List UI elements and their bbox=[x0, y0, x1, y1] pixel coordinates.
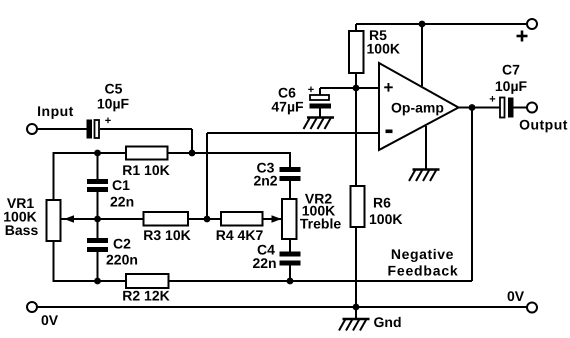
Vplus mark bbox=[517, 31, 528, 42]
node output junction bbox=[469, 104, 476, 111]
capacitor C5 bbox=[87, 120, 100, 139]
0V terminal left bbox=[27, 302, 37, 312]
resistor R3 bbox=[144, 212, 189, 226]
svg-text:R3 10K: R3 10K bbox=[143, 227, 190, 243]
capacitor C1 bbox=[87, 179, 108, 192]
svg-text:Bass: Bass bbox=[5, 222, 39, 238]
wire R5 bottom stub bbox=[355, 73, 357, 88]
resistor R5 bbox=[349, 31, 364, 73]
svg-text:Output: Output bbox=[519, 117, 568, 133]
wire bottom feedback line bbox=[53, 280, 473, 282]
node C4 bottom junction bbox=[287, 278, 294, 285]
capacitor C7 bbox=[500, 98, 514, 118]
capacitor C2 bbox=[87, 238, 108, 252]
node C2 bottom junction bbox=[94, 278, 101, 285]
resistor R1 bbox=[126, 147, 168, 160]
wire opamp ground stub bbox=[425, 126, 427, 170]
wire C5 to corner bbox=[100, 128, 192, 130]
wire top rail bbox=[356, 23, 526, 25]
op-amp minus input mark bbox=[386, 130, 393, 134]
ground symbol main bbox=[339, 319, 370, 331]
svg-text:Negative: Negative bbox=[391, 246, 454, 262]
wire C7 to output terminal bbox=[514, 107, 528, 109]
svg-text:100K: 100K bbox=[369, 211, 402, 227]
VR1 wiper arrow bbox=[64, 215, 74, 223]
wire wiper line bbox=[61, 218, 283, 220]
svg-text:+: + bbox=[384, 78, 394, 97]
svg-text:22n: 22n bbox=[252, 255, 276, 271]
potentiometer VR2 bbox=[282, 199, 297, 239]
ground below op-amp bbox=[409, 170, 440, 182]
svg-text:Input: Input bbox=[37, 103, 74, 119]
svg-text:R6: R6 bbox=[373, 195, 391, 211]
resistor R6 bbox=[351, 186, 365, 227]
svg-text:R2 12K: R2 12K bbox=[122, 288, 169, 304]
wire inverting drop to R3R4 bbox=[206, 133, 208, 219]
svg-text:C5: C5 bbox=[105, 81, 123, 97]
capacitor C6 bbox=[310, 95, 332, 109]
svg-text:0V: 0V bbox=[41, 312, 59, 328]
node supply junction bbox=[419, 21, 426, 28]
wire C1 column bbox=[97, 153, 99, 179]
wire inverting input line bbox=[207, 132, 379, 134]
wire R5 top stub bbox=[355, 24, 357, 31]
capacitor C3 bbox=[280, 167, 301, 181]
wire noninverting line bbox=[320, 87, 379, 89]
svg-text:10µF: 10µF bbox=[495, 78, 528, 94]
input terminal bbox=[27, 124, 37, 134]
svg-text:C1: C1 bbox=[112, 177, 130, 193]
wire C2 to bottom line bbox=[97, 252, 99, 281]
wire C3 to VR2 bbox=[289, 181, 291, 199]
capacitor C4 bbox=[280, 252, 301, 266]
node wiper C1C2 junction bbox=[94, 216, 101, 223]
op-amp U1 bbox=[379, 63, 459, 150]
node R3 R4 junction bbox=[204, 216, 211, 223]
wire R6 to ground rail bbox=[355, 227, 357, 307]
wire C4 to bottom line bbox=[289, 266, 291, 282]
wire opamp supply stub bbox=[421, 24, 423, 86]
svg-text:220n: 220n bbox=[106, 252, 138, 268]
svg-text:Treble: Treble bbox=[300, 216, 341, 232]
svg-text:10µF: 10µF bbox=[97, 96, 130, 112]
svg-text:Op-amp: Op-amp bbox=[391, 100, 444, 116]
wire bias divider column bbox=[355, 88, 357, 186]
svg-text:+: + bbox=[489, 94, 495, 106]
resistor R4 bbox=[221, 212, 263, 226]
wire C6 corner bbox=[319, 88, 321, 95]
svg-text:100K: 100K bbox=[367, 41, 400, 57]
potentiometer VR1 bbox=[47, 200, 61, 241]
svg-text:47µF: 47µF bbox=[271, 99, 304, 115]
wire opamp output bbox=[458, 107, 500, 109]
svg-text:22n: 22n bbox=[110, 194, 134, 210]
node C1 top junction bbox=[94, 150, 101, 157]
wire left rail upper bbox=[53, 152, 55, 200]
svg-text:+: + bbox=[105, 115, 111, 127]
wire C1 to wiper line bbox=[97, 192, 99, 238]
resistor R2 bbox=[126, 274, 169, 288]
svg-text:Gnd: Gnd bbox=[374, 314, 402, 330]
VR2 wiper arrow bbox=[272, 215, 282, 223]
wire C6 ground stub bbox=[319, 109, 321, 118]
svg-text:C2: C2 bbox=[113, 236, 131, 252]
svg-text:0V: 0V bbox=[507, 288, 525, 304]
output terminal bbox=[527, 103, 537, 113]
svg-text:C7: C7 bbox=[502, 62, 520, 78]
wire VR2 to C4 bbox=[289, 239, 291, 252]
node noninverting junction bbox=[353, 85, 360, 92]
svg-text:R1 10K: R1 10K bbox=[122, 162, 169, 178]
svg-text:Feedback: Feedback bbox=[388, 263, 459, 279]
node R1 right junction bbox=[189, 150, 196, 157]
wire input to C5 bbox=[37, 128, 87, 130]
wire left rail lower bbox=[53, 241, 55, 281]
wire mid rail bbox=[53, 152, 291, 154]
svg-text:+: + bbox=[308, 84, 314, 96]
wire feedback drop bbox=[471, 108, 473, 282]
0V terminal right bbox=[527, 303, 537, 313]
node ground junction bbox=[353, 304, 360, 311]
wire 0V rail bbox=[37, 306, 527, 308]
svg-text:2n2: 2n2 bbox=[253, 173, 277, 189]
ground below C6 bbox=[304, 118, 335, 130]
wire ground stub bbox=[355, 307, 357, 319]
wire corner down to mid rail bbox=[191, 129, 193, 153]
wire treble branch top bbox=[289, 152, 291, 167]
Vplus terminal bbox=[527, 19, 537, 29]
